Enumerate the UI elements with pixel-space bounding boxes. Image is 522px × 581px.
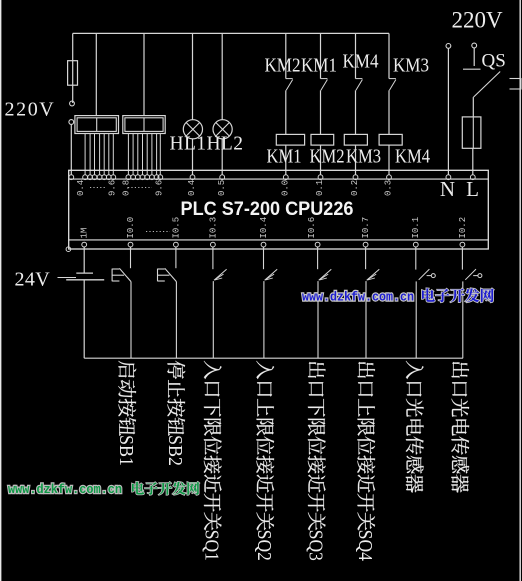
- svg-text:I0.3: I0.3: [208, 217, 218, 239]
- svg-text:KM2: KM2: [310, 146, 345, 168]
- svg-text:I0.5: I0.5: [171, 217, 181, 239]
- svg-text:SQ1: SQ1: [200, 530, 222, 561]
- svg-text:220V: 220V: [452, 8, 504, 33]
- svg-text:KM4: KM4: [343, 51, 379, 73]
- terminal block TB1: [75, 116, 119, 134]
- terminal block TB2: [123, 116, 165, 134]
- svg-text:N: N: [440, 177, 455, 201]
- lamp HL2: [221, 33, 223, 119]
- fuse FU1: [72, 33, 74, 60]
- svg-text:SQ2: SQ2: [253, 530, 275, 561]
- svg-text:HL1HL2: HL1HL2: [170, 134, 244, 155]
- svg-text:SQ3: SQ3: [304, 530, 326, 561]
- wire input common bus: [84, 357, 463, 359]
- label input 出口光电传感器: [451, 362, 469, 493]
- wires terminal block 1 to PLC outputs: [84, 134, 86, 175]
- proximity switch SQ3 NO: [317, 247, 319, 269]
- wire phase to PLC 1L terminal: [70, 124, 72, 174]
- terminal 220V phase upper: [70, 101, 75, 106]
- svg-text:0.1: 0.1: [315, 180, 325, 196]
- svg-text:I0.4: I0.4: [259, 217, 269, 239]
- svg-text:220V: 220V: [5, 99, 56, 121]
- label input 入口下限位接近开关SQ1: [200, 361, 222, 561]
- lamp HL1: [192, 33, 194, 119]
- photoelectric sensor B1: [415, 247, 417, 270]
- svg-text:I0.7: I0.7: [361, 217, 371, 239]
- battery 24V supply: [83, 247, 85, 273]
- svg-text:I0.1: I0.1: [411, 217, 421, 239]
- wire battery to common bus: [83, 280, 85, 358]
- svg-text:I0.0: I0.0: [126, 217, 136, 239]
- photoelectric sensor B2: [461, 247, 463, 270]
- svg-text:0.8: 0.8: [122, 180, 132, 196]
- PLC input terminal circles: [82, 242, 87, 247]
- label input 入口上限位接近开关SQ2: [253, 361, 275, 561]
- svg-text:24V: 24V: [15, 269, 51, 291]
- QS linkage bar: [510, 78, 522, 80]
- contact KM4 auxiliary NO: [355, 33, 357, 78]
- wire bus to terminal block 2: [143, 33, 145, 115]
- terminal PLC corner M: [66, 247, 71, 252]
- PLC output terminal labels: [76, 180, 86, 196]
- proximity switch SQ1 NO: [212, 247, 214, 269]
- contact KM2 auxiliary NO: [285, 33, 287, 78]
- svg-text:SB1: SB1: [115, 435, 137, 466]
- svg-text:www.dzkfw.com.cn: www.dzkfw.com.cn: [302, 290, 414, 305]
- wire N supply to PLC: [447, 48, 449, 175]
- left border frame line: [0, 0, 2, 581]
- svg-text:KM3: KM3: [393, 55, 429, 77]
- terminal L supply: [472, 43, 477, 48]
- svg-text:0.3: 0.3: [384, 180, 394, 196]
- svg-text:L: L: [466, 177, 479, 201]
- proximity switch SQ4 NO: [365, 247, 367, 269]
- svg-text:SQ4: SQ4: [354, 530, 376, 561]
- svg-text:I0.2: I0.2: [458, 217, 468, 239]
- wire 24V lead: [58, 277, 77, 279]
- svg-text:www.dzkfw.com.cn: www.dzkfw.com.cn: [8, 482, 122, 497]
- svg-text:1M: 1M: [80, 228, 90, 239]
- svg-text:I0.6: I0.6: [307, 217, 317, 239]
- contact KM1 auxiliary NO: [320, 33, 322, 78]
- PLC input terminal labels: [80, 228, 90, 239]
- svg-text:0.4: 0.4: [76, 180, 86, 196]
- svg-text:9.6: 9.6: [155, 180, 165, 196]
- svg-text:SB2: SB2: [164, 435, 186, 466]
- right border frame line: [519, 0, 521, 581]
- fuse FU2: [472, 97, 474, 117]
- pushbutton SB1 NO: [130, 247, 132, 268]
- label input 出口下限位接近开关SQ3: [304, 362, 326, 561]
- svg-text:KM3: KM3: [346, 146, 381, 168]
- svg-text:0.0: 0.0: [280, 180, 290, 196]
- terminal N supply: [446, 44, 451, 49]
- coil KM1: [276, 134, 304, 145]
- label input 停止按钮SB2: [164, 361, 186, 466]
- dotted separator bottom strip: [146, 231, 170, 233]
- svg-text:KM2: KM2: [265, 55, 301, 77]
- wires terminal block 2 to PLC outputs: [127, 134, 129, 175]
- wire fuse FU2 to L terminal: [472, 148, 474, 175]
- wire bus to terminal block 1: [95, 33, 97, 115]
- svg-text:0.4: 0.4: [187, 180, 197, 196]
- svg-text:QS: QS: [482, 51, 506, 72]
- dotted separators top strip: [90, 187, 106, 189]
- pushbutton SB2 NO: [175, 247, 177, 268]
- coil KM4: [379, 134, 402, 145]
- label input 入口光电传感器: [406, 361, 424, 493]
- PLC output terminal circles: [69, 175, 74, 180]
- svg-text:KM1: KM1: [267, 146, 302, 168]
- contact KM3 auxiliary NO: [388, 33, 390, 78]
- svg-text:0.2: 0.2: [350, 180, 360, 196]
- svg-text:KM4: KM4: [395, 146, 430, 168]
- label input 启动按钮SB1: [115, 361, 137, 466]
- terminal 220V phase lower: [69, 120, 74, 125]
- svg-text:0.5: 0.5: [217, 180, 227, 196]
- label input 出口上限位接近开关SQ4: [354, 362, 376, 561]
- proximity switch SQ2 NO: [263, 247, 265, 269]
- svg-text:PLC S7-200 CPU226: PLC S7-200 CPU226: [181, 199, 354, 220]
- svg-text:9.6: 9.6: [108, 180, 118, 196]
- svg-text:KM1: KM1: [301, 55, 337, 77]
- switch QS knife disconnect: [473, 48, 475, 66]
- PLC S7-200 CPU226 main box: [69, 170, 489, 249]
- coil KM2: [311, 134, 334, 145]
- wire top 220V bus: [72, 85, 74, 103]
- coil KM3: [344, 134, 367, 145]
